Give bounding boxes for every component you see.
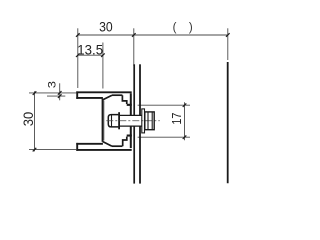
extension line left of top 30 dim	[77, 28, 79, 88]
bolt head fillet line	[111, 115, 113, 127]
dimension line 17 (vertical)	[184, 102, 186, 140]
clamp bottom chamfer	[103, 142, 112, 147]
clamp top edge	[112, 94, 122, 96]
nut facet line 1	[147, 112, 149, 129]
rail bottom flange inner line	[76, 143, 103, 145]
rail top lip bar	[130, 93, 132, 106]
bolt shaft bottom line	[120, 125, 142, 127]
nut facet line 2	[151, 112, 153, 129]
washer right side	[142, 109, 145, 133]
wall panel right line upper	[139, 64, 141, 115]
extension line top of left 30 dim	[29, 92, 76, 94]
dimension line 3 (vertical connector)	[59, 83, 61, 100]
extension line right of 13.5 dim	[102, 43, 104, 89]
rail bottom flange outer line	[76, 149, 131, 151]
extension line bottom of 17 dim	[138, 136, 190, 138]
clamp top chamfer	[103, 95, 112, 100]
bolt washer under head / counterbore line	[118, 112, 120, 129]
right panel edge line	[227, 62, 229, 183]
rail top flange outer line	[76, 91, 131, 93]
clamp bottom edge	[112, 145, 122, 147]
svg-text:(: (	[173, 22, 177, 34]
bolt shaft top line	[120, 114, 142, 116]
svg-text:30: 30	[99, 19, 113, 34]
lower extension line of 3 dim	[47, 95, 65, 97]
rail top flange left cap	[76, 91, 78, 99]
clamp left face	[102, 99, 104, 142]
rail top lip foot	[127, 104, 132, 106]
svg-text:13.5: 13.5	[77, 42, 103, 57]
rail top flange inner line	[76, 97, 103, 99]
clamp right face upper	[130, 106, 132, 116]
rail bottom flange left cap	[76, 143, 78, 151]
wall panel left line upper	[133, 64, 135, 115]
dimension line 13.5	[78, 54, 103, 56]
svg-text:): )	[189, 22, 193, 34]
clamp right face lower	[130, 126, 132, 136]
clamp top step notch	[122, 95, 126, 104]
rail bottom lip bar	[130, 135, 132, 149]
svg-text:3: 3	[47, 81, 59, 88]
dimension ticks	[33, 33, 230, 151]
extension line right for ( ) dim	[227, 28, 229, 60]
hex nut	[145, 112, 154, 130]
svg-text:30: 30	[21, 112, 36, 126]
dimension line top (30 and parentheses)	[78, 34, 228, 36]
extension line bottom of left 30 dim	[29, 149, 76, 151]
extension line top of 17 dim	[138, 104, 190, 106]
rail bottom lip foot	[127, 135, 132, 137]
bolt centerline	[106, 120, 160, 122]
dimension line left 30 (vertical)	[34, 91, 36, 151]
wall panel right line lower	[139, 126, 141, 184]
clamp face inner thin line	[103, 101, 105, 141]
clamp bottom step notch	[123, 137, 127, 147]
svg-text:17: 17	[169, 113, 184, 125]
wall panel left line lower	[133, 126, 135, 184]
bolt head	[108, 115, 118, 127]
extension line at wall for top dims	[133, 28, 135, 66]
